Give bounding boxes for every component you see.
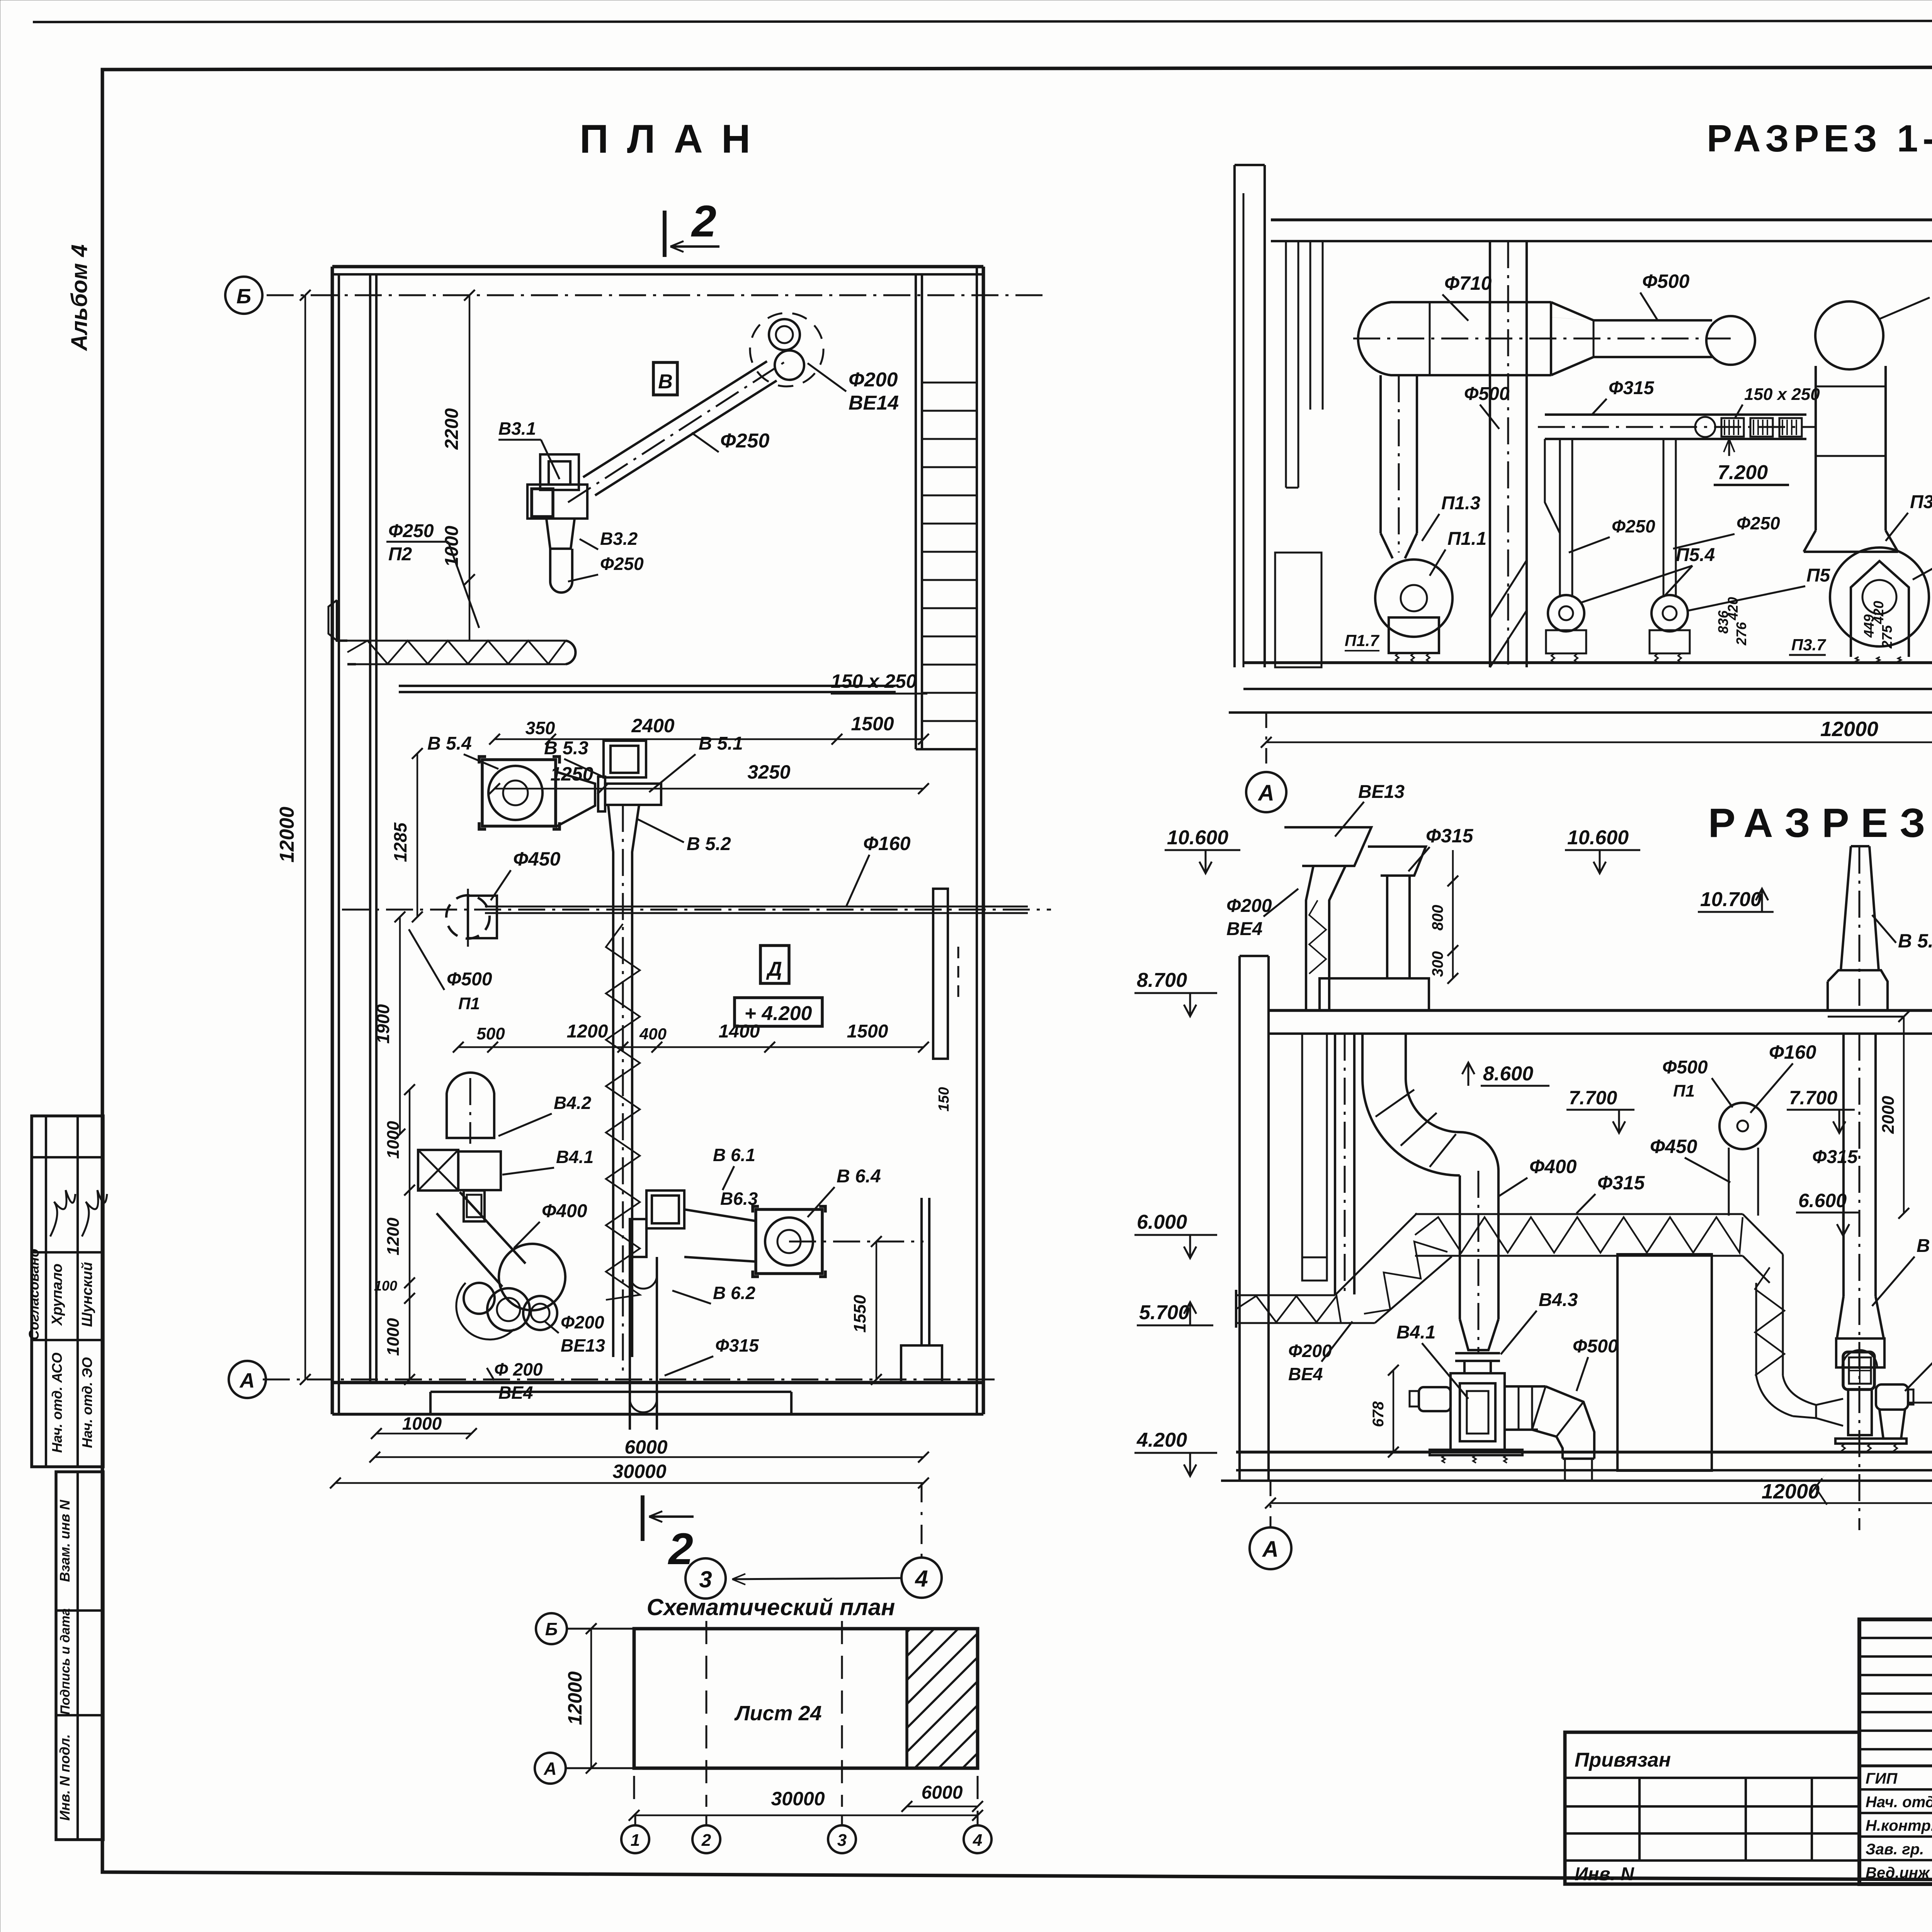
svg-text:Ф315: Ф315 xyxy=(1812,1147,1858,1167)
svg-text:400: 400 xyxy=(639,1025,667,1043)
svg-text:В4.3: В4.3 xyxy=(1539,1290,1578,1310)
svg-text:1285: 1285 xyxy=(390,822,410,862)
svg-text:В 5.2: В 5.2 xyxy=(687,834,731,854)
svg-text:П1.1: П1.1 xyxy=(1447,529,1486,549)
svg-text:ВЕ14: ВЕ14 xyxy=(849,392,899,414)
svg-text:Ф500: Ф500 xyxy=(1464,384,1510,404)
svg-text:800: 800 xyxy=(1429,905,1446,931)
svg-text:10.600: 10.600 xyxy=(1167,827,1228,849)
svg-text:1000: 1000 xyxy=(402,1413,442,1434)
svg-text:300: 300 xyxy=(1429,951,1446,977)
svg-text:4.200: 4.200 xyxy=(1136,1429,1187,1451)
svg-text:Хрупало: Хрупало xyxy=(49,1264,65,1326)
svg-text:150 x 250: 150 x 250 xyxy=(1744,385,1820,404)
svg-text:Д: Д xyxy=(766,958,782,980)
svg-text:Ф450: Ф450 xyxy=(1650,1136,1697,1157)
svg-text:10.600: 10.600 xyxy=(1567,827,1629,849)
svg-text:Ф250: Ф250 xyxy=(1612,516,1655,536)
svg-text:ВЕ4: ВЕ4 xyxy=(1226,919,1262,939)
svg-text:Б: Б xyxy=(545,1619,558,1639)
svg-text:Ф500: Ф500 xyxy=(1573,1336,1618,1357)
svg-text:Ф160: Ф160 xyxy=(863,833,911,854)
svg-text:6.600: 6.600 xyxy=(1798,1190,1847,1211)
svg-text:1500: 1500 xyxy=(851,713,894,735)
svg-text:2000: 2000 xyxy=(1879,1096,1898,1134)
svg-text:ВЕ4: ВЕ4 xyxy=(1288,1364,1323,1384)
svg-text:Ф200: Ф200 xyxy=(849,369,898,391)
svg-text:Ф250: Ф250 xyxy=(600,554,644,574)
svg-text:8.700: 8.700 xyxy=(1137,969,1187,992)
svg-text:2: 2 xyxy=(701,1831,711,1850)
svg-text:А: А xyxy=(239,1369,255,1392)
svg-text:ВЕ13: ВЕ13 xyxy=(561,1335,605,1355)
svg-text:30000: 30000 xyxy=(771,1788,825,1810)
svg-text:В: В xyxy=(658,371,673,393)
svg-text:150: 150 xyxy=(936,1087,952,1111)
svg-text:Ф400: Ф400 xyxy=(1529,1156,1577,1177)
svg-text:В3.1: В3.1 xyxy=(498,418,536,439)
svg-text:276: 276 xyxy=(1733,622,1749,646)
svg-text:1: 1 xyxy=(631,1831,640,1850)
svg-text:Ф250: Ф250 xyxy=(1736,513,1780,533)
svg-text:П3.3: П3.3 xyxy=(1910,492,1932,512)
svg-text:П1.7: П1.7 xyxy=(1345,631,1379,650)
svg-text:100: 100 xyxy=(374,1278,397,1294)
svg-text:П2: П2 xyxy=(388,544,412,565)
svg-text:Инв. N: Инв. N xyxy=(1575,1864,1634,1884)
svg-text:500: 500 xyxy=(476,1024,505,1043)
svg-text:7.700: 7.700 xyxy=(1569,1087,1617,1109)
svg-text:Б: Б xyxy=(236,285,251,308)
svg-text:275: 275 xyxy=(1879,625,1895,649)
svg-text:ГИП: ГИП xyxy=(1866,1770,1898,1787)
svg-text:1000: 1000 xyxy=(442,526,462,567)
svg-text:Ф500: Ф500 xyxy=(1642,270,1690,292)
svg-text:Нач. отд. ЭО: Нач. отд. ЭО xyxy=(79,1357,95,1448)
svg-text:Ф710: Ф710 xyxy=(1444,272,1492,294)
svg-text:В 6.1: В 6.1 xyxy=(713,1145,755,1165)
svg-text:А: А xyxy=(1262,1537,1279,1562)
svg-text:2200: 2200 xyxy=(442,408,462,450)
svg-text:РАЗРЕЗ 2-2: РАЗРЕЗ 2-2 xyxy=(1708,800,1932,846)
svg-text:А: А xyxy=(1257,781,1274,806)
svg-text:420: 420 xyxy=(1725,597,1741,621)
svg-text:3: 3 xyxy=(837,1831,847,1850)
svg-text:Нач. отд. АСО: Нач. отд. АСО xyxy=(49,1352,65,1453)
svg-text:П1.3: П1.3 xyxy=(1441,493,1481,514)
svg-text:6000: 6000 xyxy=(922,1782,963,1803)
svg-text:А: А xyxy=(543,1759,556,1779)
svg-text:2400: 2400 xyxy=(631,715,674,736)
svg-text:Шунский: Шунский xyxy=(79,1262,95,1327)
svg-text:Ф315: Ф315 xyxy=(1597,1172,1645,1194)
svg-text:5.700: 5.700 xyxy=(1139,1301,1189,1324)
svg-text:ВЕ13: ВЕ13 xyxy=(1358,782,1405,802)
svg-text:2: 2 xyxy=(691,197,716,246)
svg-text:Альбом 4: Альбом 4 xyxy=(67,244,92,351)
svg-text:10.700: 10.700 xyxy=(1700,888,1762,911)
svg-text:6.000: 6.000 xyxy=(1137,1211,1187,1233)
svg-text:+ 4.200: + 4.200 xyxy=(745,1002,812,1025)
svg-text:12000: 12000 xyxy=(1820,718,1878,741)
svg-text:1200: 1200 xyxy=(384,1218,403,1255)
svg-text:350: 350 xyxy=(526,718,555,738)
svg-text:В 6.4: В 6.4 xyxy=(837,1166,881,1187)
svg-text:Схематический план: Схематический план xyxy=(647,1594,895,1620)
svg-text:Инв. N подл.: Инв. N подл. xyxy=(57,1734,73,1821)
svg-text:В 5.4: В 5.4 xyxy=(1917,1236,1932,1256)
svg-text:1000: 1000 xyxy=(384,1121,403,1159)
svg-text:1000: 1000 xyxy=(384,1318,403,1356)
svg-text:1900: 1900 xyxy=(373,1004,393,1044)
svg-text:Ф200: Ф200 xyxy=(1226,896,1272,916)
svg-text:7.700: 7.700 xyxy=(1789,1087,1837,1109)
svg-text:П1: П1 xyxy=(1673,1082,1695,1100)
svg-text:ПЛАН: ПЛАН xyxy=(580,117,769,162)
svg-text:1500: 1500 xyxy=(847,1021,888,1042)
svg-text:Ф250: Ф250 xyxy=(388,521,434,541)
svg-text:1550: 1550 xyxy=(850,1295,869,1333)
svg-text:12000: 12000 xyxy=(1762,1480,1820,1503)
svg-text:Ф 200: Ф 200 xyxy=(494,1359,543,1379)
svg-text:В4.1: В4.1 xyxy=(556,1147,594,1167)
svg-text:Нач. отд.: Нач. отд. xyxy=(1866,1794,1932,1811)
svg-text:В 6.2: В 6.2 xyxy=(713,1283,755,1303)
svg-text:Подпись и дата: Подпись и дата xyxy=(58,1608,73,1715)
svg-text:Ф200: Ф200 xyxy=(561,1312,604,1332)
svg-text:В4.2: В4.2 xyxy=(554,1093,592,1113)
svg-text:ВЕ4: ВЕ4 xyxy=(498,1383,533,1403)
svg-text:30000: 30000 xyxy=(612,1461,666,1482)
svg-text:4: 4 xyxy=(915,1566,928,1592)
svg-text:Взам. инв N: Взам. инв N xyxy=(57,1500,73,1582)
svg-text:В 5.1: В 5.1 xyxy=(699,733,743,754)
svg-text:1200: 1200 xyxy=(567,1021,608,1042)
svg-text:П5: П5 xyxy=(1806,565,1831,586)
svg-text:150 x 250: 150 x 250 xyxy=(831,670,917,692)
svg-text:Ф400: Ф400 xyxy=(542,1201,587,1221)
svg-text:4: 4 xyxy=(973,1831,982,1850)
svg-text:Лист 24: Лист 24 xyxy=(734,1702,821,1725)
svg-text:Ф160: Ф160 xyxy=(1769,1041,1816,1063)
svg-text:В 5.4: В 5.4 xyxy=(427,733,472,754)
svg-text:В3.2: В3.2 xyxy=(600,529,638,549)
svg-text:Ф450: Ф450 xyxy=(513,848,561,870)
svg-text:Ф315: Ф315 xyxy=(1426,825,1474,847)
svg-text:678: 678 xyxy=(1370,1401,1387,1427)
svg-text:Привязан: Привязан xyxy=(1575,1749,1671,1771)
svg-text:Зав. гр.: Зав. гр. xyxy=(1866,1841,1924,1858)
svg-text:12000: 12000 xyxy=(276,807,298,863)
svg-text:Согласовано: Согласовано xyxy=(26,1249,42,1340)
svg-text:Ф250: Ф250 xyxy=(720,430,769,452)
svg-text:3: 3 xyxy=(699,1566,712,1592)
svg-text:3250: 3250 xyxy=(747,761,790,783)
svg-text:Н.контр.: Н.контр. xyxy=(1866,1817,1932,1834)
svg-text:420: 420 xyxy=(1871,601,1886,624)
svg-text:6000: 6000 xyxy=(624,1436,667,1458)
svg-text:РАЗРЕЗ 1-1: РАЗРЕЗ 1-1 xyxy=(1707,117,1932,160)
svg-text:В 5.4: В 5.4 xyxy=(1898,930,1932,952)
svg-text:Ф500: Ф500 xyxy=(1662,1057,1708,1078)
svg-text:Ф315: Ф315 xyxy=(715,1335,759,1355)
svg-text:8.600: 8.600 xyxy=(1483,1063,1533,1085)
svg-text:Ф500: Ф500 xyxy=(447,969,492,990)
svg-text:В 5.3: В 5.3 xyxy=(544,738,588,759)
svg-text:В6.3: В6.3 xyxy=(720,1189,758,1209)
svg-text:12000: 12000 xyxy=(564,1671,586,1725)
svg-text:П3.7: П3.7 xyxy=(1791,636,1826,654)
svg-text:Вед.инж: Вед.инж xyxy=(1866,1864,1930,1881)
svg-text:П1: П1 xyxy=(458,994,480,1013)
svg-text:7.200: 7.200 xyxy=(1718,461,1768,484)
svg-text:П5.4: П5.4 xyxy=(1676,545,1715,565)
svg-text:В4.1: В4.1 xyxy=(1396,1322,1435,1343)
svg-text:Ф315: Ф315 xyxy=(1609,378,1655,398)
